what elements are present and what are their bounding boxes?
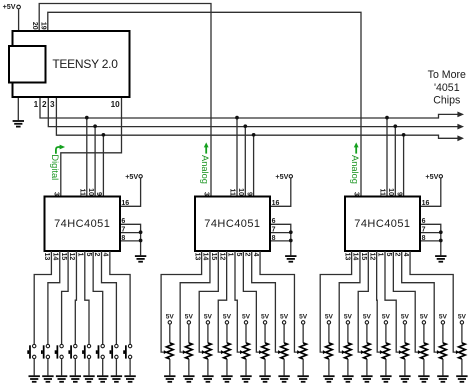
svg-text:4: 4 [102,253,109,257]
ground (pot R10) [342,376,353,382]
svg-text:2: 2 [393,253,400,257]
svg-text:16: 16 [272,200,280,207]
svg-text:8: 8 [272,235,276,242]
wiper arrowhead R2 [183,350,186,354]
svg-text:5V: 5V [299,314,308,321]
svg-text:16: 16 [422,200,430,207]
wire U3 pin 5 to pot R6 wiper [243,251,260,352]
svg-text:+5V: +5V [425,172,438,181]
power 5V supply (pot R5) [242,314,251,325]
wire 5V to pot R11 [366,324,368,343]
svg-text:5V: 5V [401,314,410,321]
svg-text:10: 10 [87,188,94,196]
potentiometer R5 [243,343,250,359]
wire bus S2 to U4 select pin [403,135,405,196]
svg-text:5V: 5V [382,314,391,321]
wiper arrowhead R1 [164,350,167,354]
ground (switch S1) [29,376,40,382]
wire U4 pin 14 to pot R10 wiper [339,251,360,352]
wire pot R13 to ground [404,359,406,375]
wire pot R12 to ground [385,359,387,375]
junction U3 pin8 [289,239,293,243]
IC U3 74HC4051 [195,197,270,252]
wire U2 pin7 to ground rail [120,232,141,234]
switch S2 (pushbutton) [41,344,50,358]
switch S3 (pushbutton) [55,344,64,358]
svg-text:5: 5 [235,253,242,257]
potentiometer R7 [281,343,288,359]
junction bus S1 / U2 [93,124,97,128]
svg-text:5V: 5V [439,314,448,321]
svg-text:15: 15 [360,253,367,261]
wire U2 pin 1 to switch S5 [85,251,89,344]
wire pot R5 to ground [245,359,247,375]
wire U4 pin 12 to pot R12 wiper [377,251,381,352]
wire pot R8 to ground [302,359,304,375]
svg-text:Analog: Analog [350,155,360,184]
svg-text:5: 5 [385,253,392,257]
wire U2 pin 14 to switch S2 [48,251,60,344]
junction bus S0 / U2 [85,116,89,120]
svg-text:14: 14 [51,253,58,261]
wire 5V to pot R5 [245,324,247,343]
arrowhead S2 [457,135,464,141]
wire 5V to pot R2 [188,324,190,343]
junction U2 pin7 [139,230,143,234]
wire U3 pin8 to ground rail [270,240,291,242]
wire U3 pin6 to ground rail [270,224,291,255]
svg-text:5V: 5V [344,314,353,321]
wiper arrowhead R11 [361,350,364,354]
wire 5V to pot R16 [461,324,463,343]
wire switch S1 to ground [33,359,35,376]
ground (pot R9) [323,376,334,382]
ground (switch S8) [124,376,135,382]
svg-text:7: 7 [422,227,426,234]
junction bus S0 / U4 [385,116,389,120]
wire 5V to pot R9 [328,324,330,343]
svg-text:6: 6 [121,218,125,225]
wire Teensy pin19 to U4 pin3 (analog bus) [48,12,361,196]
svg-text:74HC4051: 74HC4051 [54,218,110,230]
potentiometer R16 [459,343,466,359]
ground (pot R11) [361,376,372,382]
wire +5V to Teensy VCC [18,9,20,31]
power 5V supply (pot R3) [204,314,213,325]
wire U4 pin 13 to pot R9 wiper [320,251,351,352]
svg-text:2: 2 [42,100,47,109]
wire U4 pin 2 to pot R15 wiper [402,251,438,352]
ground (pot R3) [202,376,213,382]
power 5V supply (pot R12) [382,314,391,325]
arrowhead S1 [457,124,464,130]
wire U4 pin 15 to pot R11 wiper [358,251,368,352]
wire U4 pin7 to ground rail [420,232,441,234]
wire U2 pin16 VCC to +5V [120,178,141,206]
ground (pot R1) [164,376,175,382]
potentiometer R15 [440,343,447,359]
ground (U4 pins 6-8) [435,256,446,262]
ground (U2 pins 6-8) [135,256,146,262]
switch S5 (pushbutton) [82,344,91,358]
svg-text:5V: 5V [242,314,251,321]
junction bus S2 / U3 [252,133,256,137]
svg-text:+5V: +5V [275,172,288,181]
wire 5V to pot R8 [302,324,304,343]
power 5V supply (pot R8) [299,314,308,325]
wiper arrowhead R5 [240,350,243,354]
ground (U3 pins 6-8) [285,256,296,262]
potentiometer R4 [224,343,231,359]
ground (pot R4) [221,376,232,382]
svg-text:11: 11 [379,188,386,196]
svg-text:5V: 5V [204,314,213,321]
Teensy 2.0 board U1 [13,31,130,97]
svg-text:9: 9 [395,192,402,196]
svg-text:14: 14 [352,253,359,261]
svg-text:3: 3 [353,192,360,196]
svg-text:8: 8 [422,235,426,242]
svg-text:74HC4051: 74HC4051 [204,218,260,230]
potentiometer R3 [205,343,212,359]
potentiometer R8 [300,343,307,359]
wire bus S0 to U4 select pin [386,118,388,197]
svg-text:15: 15 [210,253,217,261]
wire switch S8 to ground [129,359,131,376]
wire U3 pin 12 to pot R4 wiper [218,251,226,352]
wire pot R14 to ground [423,359,425,375]
svg-text:11: 11 [79,188,86,196]
ground (pot R14) [418,376,429,382]
svg-text:TEENSY 2.0: TEENSY 2.0 [52,57,118,71]
wire pot R15 to ground [442,359,444,375]
wire U4 pin 1 to pot R13 wiper [385,251,400,352]
wire pot R3 to ground [207,359,209,375]
wire pot R11 to ground [366,359,368,375]
ground (pot R8) [297,376,308,382]
svg-text:7: 7 [121,227,125,234]
switch S4 (pushbutton) [68,344,77,358]
wire U2 pin8 to ground rail [120,240,141,242]
wire U4 pin16 VCC to +5V [420,178,441,206]
wiper arrowhead R15 [437,350,440,354]
svg-text:3: 3 [50,100,55,109]
svg-text:To More: To More [428,69,466,81]
power 5V supply (pot R11) [363,314,372,325]
ground (switch S5) [83,376,94,382]
wire pot R16 to ground [461,359,463,375]
junction bus S1 / U4 [393,124,397,128]
potentiometer R10 [345,343,352,359]
svg-text:12: 12 [68,253,75,261]
wire 5V to pot R3 [207,324,209,343]
wire pot R9 to ground [328,359,330,375]
svg-text:'4051: '4051 [434,82,460,94]
wire 5V to pot R6 [264,324,266,343]
svg-text:10: 10 [111,100,121,109]
wiper arrowhead R3 [202,350,205,354]
annotation arrow Analog (U4) [354,142,359,153]
wire U3 pin 4 to pot R8 wiper [260,251,298,352]
wire switch S5 to ground [88,359,90,376]
ground (pot R12) [380,376,391,382]
wiper arrowhead R7 [278,350,281,354]
wire pot R7 to ground [283,359,285,375]
wire U4 pin 5 to pot R14 wiper [393,251,418,352]
potentiometer R12 [383,343,390,359]
wiper arrowhead R14 [418,350,421,354]
svg-text:5V: 5V [185,314,194,321]
wire U3 pin 14 to pot R2 wiper [180,251,210,352]
svg-text:74HC4051: 74HC4051 [354,218,410,230]
annotation arrow Analog (U3) [204,142,209,153]
IC U2 74HC4051 [45,197,120,252]
potentiometer R6 [262,343,269,359]
wire U3 pin 13 to pot R1 wiper [161,251,202,352]
svg-text:Chips: Chips [433,95,460,107]
svg-text:2: 2 [243,253,250,257]
power 5V supply (pot R14) [420,314,429,325]
wiper arrowhead R12 [380,350,383,354]
ground (switch S3) [56,376,67,382]
wire switch S4 to ground [74,359,76,376]
wire 5V to pot R14 [423,324,425,343]
wire U2 pin 13 to switch S1 [34,251,51,344]
wire 5V to pot R12 [385,324,387,343]
svg-text:12: 12 [218,253,225,261]
ground (switch S4) [70,376,81,382]
wire 5V to pot R15 [442,324,444,343]
wiper arrowhead R6 [259,350,262,354]
ground (pot R15) [437,376,448,382]
switch S1 (pushbutton) [27,344,36,358]
wire 5V to pot R4 [226,324,228,343]
wire U3 pin7 to ground rail [270,232,291,234]
svg-text:6: 6 [272,218,276,225]
ground (switch S6) [97,376,108,382]
wire U3 pin16 VCC to +5V [270,178,291,206]
svg-text:5V: 5V [420,314,429,321]
potentiometer R13 [402,343,409,359]
ground (pot R16) [456,376,467,382]
svg-text:14: 14 [202,253,209,261]
svg-text:5: 5 [85,253,92,257]
wire 5V to pot R10 [347,324,349,343]
switch S8 (pushbutton) [123,344,132,358]
junction bus S2 / U2 [102,133,106,137]
wire pot R1 to ground [169,359,171,375]
svg-text:3: 3 [53,192,60,196]
wire 5V to pot R1 [169,324,171,343]
wire bus S1 to U2 select pin [94,127,96,197]
svg-text:5V: 5V [458,314,467,321]
svg-text:12: 12 [368,253,375,261]
switch S6 (pushbutton) [96,344,105,358]
IC U4 74HC4051 [345,197,420,252]
svg-text:1: 1 [227,253,234,257]
svg-text:1: 1 [77,253,84,257]
wire switch S7 to ground [115,359,117,376]
wire U3 pin 1 to pot R5 wiper [235,251,241,352]
wire pot R6 to ground [264,359,266,375]
power 5V supply (pot R2) [185,314,194,325]
USB connector on Teensy [9,46,45,82]
wire switch S6 to ground [102,359,104,376]
ground (pot R5) [240,376,251,382]
wire pot R2 to ground [188,359,190,375]
potentiometer R14 [421,343,428,359]
svg-text:20: 20 [31,22,38,30]
svg-text:16: 16 [121,200,129,207]
svg-text:9: 9 [245,192,252,196]
svg-text:10: 10 [237,188,244,196]
power 5V supply (pot R1) [166,314,175,325]
wire switch S3 to ground [61,359,63,376]
wire pot R4 to ground [226,359,228,375]
wire U2 pin6 to ground rail [120,224,141,255]
power +5V supply (U2) [125,172,142,181]
wiper arrowhead R16 [456,350,459,354]
wiper arrowhead R10 [342,350,345,354]
wire bus S0 to U3 select pin [236,118,238,197]
wire U2 pin 12 to switch S4 [75,251,76,344]
svg-text:11: 11 [229,188,236,196]
potentiometer R1 [167,343,174,359]
svg-text:Analog: Analog [200,155,210,184]
svg-text:4: 4 [402,253,409,257]
ground (pot R7) [278,376,289,382]
switch S7 (pushbutton) [110,344,119,358]
power 5V supply (pot R6) [261,314,270,325]
wire U4 pin8 to ground rail [420,240,441,242]
arrowhead S0 [457,112,464,118]
wire U2 pin 5 to switch S6 [93,251,103,344]
svg-text:5V: 5V [363,314,372,321]
svg-text:1: 1 [34,100,39,109]
junction U4 pin7 [439,230,443,234]
bus wire S2 (Teensy pin3) to more 4051 chips [56,97,457,138]
svg-text:5V: 5V [280,314,289,321]
bus wire S0 (Teensy pin1) to more 4051 chips [40,97,458,118]
annotation arrow Digital (green hook) [56,145,65,154]
power 5V supply (pot R13) [401,314,410,325]
svg-text:13: 13 [43,253,50,261]
wire 5V to pot R13 [404,324,406,343]
power 5V supply (pot R10) [344,314,353,325]
wire U4 pin 4 to pot R16 wiper [410,251,457,352]
svg-text:5V: 5V [325,314,334,321]
wire U4 pin6 to ground rail [420,224,441,255]
power +5V supply (U4) [425,172,442,181]
svg-text:7: 7 [272,227,276,234]
ground (pot R2) [183,376,194,382]
power +5V supply (U3) [275,172,292,181]
svg-text:6: 6 [422,218,426,225]
svg-text:19: 19 [39,22,46,30]
ground (switch S2) [42,376,53,382]
wiper arrowhead R9 [323,350,326,354]
junction bus S0 / U3 [235,116,239,120]
wire bus S1 to U4 select pin [394,127,396,197]
wire switch S2 to ground [47,359,49,376]
bus wire S1 (Teensy pin2) to more 4051 chips [48,97,457,127]
svg-text:+5V: +5V [3,2,16,11]
wiper arrowhead R4 [221,350,224,354]
power 5V supply (pot R4) [223,314,232,325]
wire bus S2 to U3 select pin [253,135,255,196]
wire 5V to pot R7 [283,324,285,343]
wire bus S1 to U3 select pin [244,127,246,197]
svg-text:8: 8 [121,235,125,242]
ground (switch S7) [111,376,122,382]
ground (pot R6) [259,376,270,382]
junction bus S2 / U4 [402,133,406,137]
svg-text:10: 10 [387,188,394,196]
svg-text:+5V: +5V [125,172,138,181]
svg-text:Digital: Digital [50,154,60,180]
svg-text:13: 13 [343,253,350,261]
wire Teensy GND pin to ground [17,97,19,120]
power +5V supply (Teensy) [3,2,21,11]
svg-text:3: 3 [203,192,210,196]
svg-text:5V: 5V [223,314,232,321]
svg-text:4: 4 [252,253,259,257]
label To More '4051 Chips [428,69,466,107]
wire U2 pin 2 to switch S7 [102,251,117,344]
wire U3 pin 2 to pot R7 wiper [252,251,279,352]
wiper arrowhead R8 [297,350,300,354]
power 5V supply (pot R7) [280,314,289,325]
junction bus S1 / U3 [243,124,247,128]
wire Teensy pin20 to U3 pin3 (analog bus) [39,4,211,197]
svg-text:5V: 5V [261,314,270,321]
svg-text:9: 9 [95,192,102,196]
wire Teensy pin10 to U2 pin3 (digital common) [61,97,122,197]
potentiometer R9 [326,343,333,359]
power 5V supply (pot R16) [458,314,467,325]
wire bus S2 to U2 select pin [102,135,104,196]
wire U3 pin 15 to pot R3 wiper [199,251,218,352]
svg-text:1: 1 [377,253,384,257]
svg-text:5V: 5V [166,314,175,321]
power 5V supply (pot R9) [325,314,334,325]
potentiometer R11 [364,343,371,359]
wiper arrowhead R13 [399,350,402,354]
wire pot R10 to ground [347,359,349,375]
junction U3 pin7 [289,230,293,234]
svg-text:2: 2 [93,253,100,257]
junction U4 pin8 [439,239,443,243]
ground (pot R13) [399,376,410,382]
wire bus S0 to U2 select pin [86,118,88,197]
svg-text:15: 15 [60,253,67,261]
wire U2 pin 15 to switch S3 [62,251,69,344]
junction U2 pin8 [139,239,143,243]
wire U2 pin 4 to switch S8 [110,251,130,344]
power 5V supply (pot R15) [439,314,448,325]
potentiometer R2 [186,343,193,359]
svg-text:13: 13 [193,253,200,261]
ground (Teensy) [13,121,24,127]
